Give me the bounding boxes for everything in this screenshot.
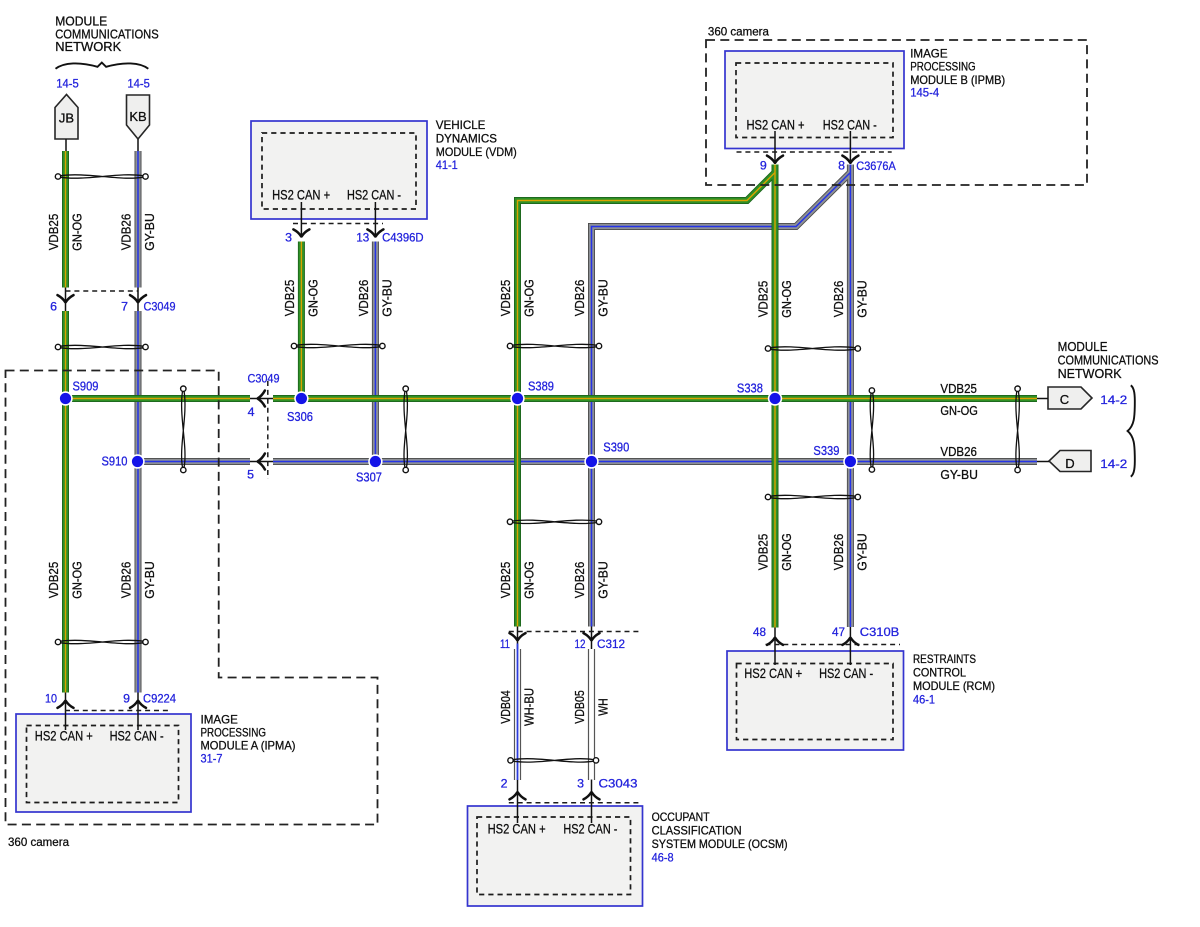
svg-text:VDB05: VDB05 — [573, 690, 587, 724]
label wire mid gray lower — [573, 561, 611, 599]
svg-text:VDB25: VDB25 — [757, 281, 771, 318]
pin stub IPMB pin9 — [774, 131, 776, 164]
svg-text:46-8: 46-8 — [652, 851, 674, 865]
twisted pair symbol bus x872 — [869, 388, 874, 472]
svg-text:RESTRAINTS: RESTRAINTS — [913, 653, 976, 666]
label wire colA upper — [47, 213, 85, 251]
svg-text:GN-OG: GN-OG — [780, 533, 794, 571]
dashed link connector C3049 pins 4-5 — [267, 381, 269, 479]
label HS2 CAN RCM — [744, 666, 873, 681]
module box IPMB — [725, 51, 904, 149]
svg-text:C3049: C3049 — [248, 372, 280, 386]
label network title left — [55, 13, 159, 54]
pin stub VDM pin13 — [374, 202, 376, 237]
svg-text:VDB04: VDB04 — [499, 690, 513, 724]
svg-text:GN-OG: GN-OG — [780, 280, 794, 318]
svg-text:S909: S909 — [73, 380, 99, 394]
svg-text:HS2 CAN +: HS2 CAN + — [35, 729, 93, 744]
svg-text:C3676A: C3676A — [856, 159, 896, 173]
pin stub IPMA pin9 — [137, 693, 139, 731]
label wire VDM gray — [357, 279, 395, 317]
svg-text:VDB26: VDB26 — [120, 214, 134, 251]
dashed link connector C3049 pins 6-7 — [66, 290, 139, 292]
svg-text:HS2 CAN +: HS2 CAN + — [488, 822, 546, 837]
svg-text:HS2 CAN -: HS2 CAN - — [819, 666, 873, 681]
label wire mid gray upper — [573, 279, 611, 317]
svg-text:GN-OG: GN-OG — [306, 279, 320, 317]
module box IPMA — [16, 714, 191, 812]
brace top left — [56, 63, 149, 69]
svg-text:VDB26: VDB26 — [832, 281, 846, 318]
label IPMB title — [910, 48, 1005, 100]
pin stub VDM pin3 — [300, 202, 302, 237]
wire VDB25 GN-OG column JB — [62, 151, 69, 693]
arrow C3049 pin7 — [130, 295, 146, 302]
twisted pair symbol right drop lower — [765, 494, 860, 499]
twisted pair symbol JB-KB upper — [55, 174, 148, 179]
svg-text:MODULE (RCM): MODULE (RCM) — [913, 680, 995, 693]
twisted pair symbol VDM drop — [291, 343, 385, 348]
svg-text:7: 7 — [121, 300, 128, 314]
svg-text:C3049: C3049 — [144, 300, 176, 314]
label HS2 CAN IPMB — [747, 118, 877, 133]
svg-text:GY-BU: GY-BU — [380, 279, 394, 317]
arrow IPMB pin8 — [842, 156, 858, 163]
svg-text:WH: WH — [597, 698, 611, 716]
arrow C3049 pin4 — [258, 391, 265, 407]
label network title right — [1058, 339, 1159, 381]
connector KB — [127, 95, 150, 139]
arrow RCM pin48 — [767, 638, 783, 645]
twisted pair symbol bus x183 — [181, 386, 186, 473]
svg-text:C9224: C9224 — [143, 692, 176, 706]
svg-text:C3043: C3043 — [599, 777, 638, 791]
label wire colB lower — [120, 561, 158, 599]
connector JB — [55, 95, 78, 140]
svg-text:47: 47 — [832, 625, 845, 639]
label wire colA lower — [47, 561, 85, 599]
arrow OCSM pin3 — [584, 792, 600, 799]
svg-text:HS2 CAN -: HS2 CAN - — [110, 729, 164, 744]
arrow IPMA pin10 — [58, 701, 74, 708]
svg-text:PROCESSING: PROCESSING — [910, 61, 976, 74]
svg-text:145-4: 145-4 — [910, 86, 939, 100]
wire VDB04 WH-BU thin — [515, 644, 521, 781]
svg-text:14-2: 14-2 — [1100, 457, 1127, 471]
label wire right gray lower — [832, 533, 870, 571]
svg-text:PROCESSING: PROCESSING — [201, 727, 267, 740]
svg-text:GY-BU: GY-BU — [855, 533, 869, 571]
label HS2 CAN OCSM — [488, 822, 618, 837]
label wire right green lower — [757, 533, 795, 571]
svg-text:HS2 CAN -: HS2 CAN - — [563, 822, 617, 837]
pin stub C3049 pin5 — [250, 461, 274, 463]
svg-text:VDB25: VDB25 — [940, 382, 977, 396]
arrow C312 pin12 — [584, 633, 600, 640]
pin stub C312 pin12 — [591, 627, 593, 650]
twisted pair symbol OCSM thin wires — [508, 758, 599, 763]
label wire VDB04 — [499, 688, 537, 726]
svg-text:CLASSIFICATION: CLASSIFICATION — [652, 825, 742, 838]
pin stub OCSM pin3 — [591, 780, 593, 824]
label OCSM title — [652, 811, 788, 865]
connector C — [1048, 387, 1092, 409]
svg-text:S307: S307 — [356, 471, 382, 485]
arrow C312 pin11 — [510, 633, 526, 640]
svg-text:VDB26: VDB26 — [940, 445, 977, 459]
pin stub C312 pin11 — [517, 627, 519, 650]
twisted pair symbol bus x1018 — [1015, 386, 1020, 473]
svg-text:VDB26: VDB26 — [120, 562, 134, 599]
svg-text:GN-OG: GN-OG — [71, 561, 85, 599]
dashed link connector C9224 — [65, 710, 168, 712]
svg-text:3: 3 — [285, 231, 292, 245]
brace right — [1128, 385, 1135, 476]
module box OCSM — [468, 806, 643, 906]
svg-text:11: 11 — [500, 637, 510, 651]
svg-text:GN-OG: GN-OG — [940, 404, 978, 418]
pin stub C3049 pin4 — [250, 398, 274, 400]
svg-text:360 camera: 360 camera — [708, 25, 769, 39]
wire VDB26 GY-BU column KB — [135, 151, 142, 693]
svg-text:S390: S390 — [603, 441, 629, 455]
svg-text:MODULE (VDM): MODULE (VDM) — [436, 146, 517, 159]
label HS2 CAN IPMA — [35, 729, 164, 744]
svg-text:IMAGE: IMAGE — [910, 48, 948, 61]
svg-text:HS2 CAN -: HS2 CAN - — [347, 188, 401, 203]
svg-text:VDB26: VDB26 — [357, 280, 371, 317]
svg-text:2: 2 — [501, 777, 508, 791]
svg-text:8: 8 — [838, 159, 845, 173]
svg-text:S389: S389 — [528, 380, 554, 394]
svg-text:GY-BU: GY-BU — [143, 561, 157, 599]
svg-text:JB: JB — [59, 111, 74, 126]
svg-text:HS2 CAN +: HS2 CAN + — [744, 666, 802, 681]
wire VDB26 GY-BU column VDM — [372, 242, 379, 462]
wire VDB26 GY-BU middle column and top run — [592, 165, 851, 628]
label wire colB upper — [120, 213, 158, 251]
svg-text:GN-OG: GN-OG — [523, 279, 537, 317]
svg-text:OCCUPANT: OCCUPANT — [652, 811, 710, 824]
svg-text:GY-BU: GY-BU — [855, 280, 869, 318]
wire VDB26 GY-BU bus — [138, 458, 1037, 465]
svg-text:HS2 CAN +: HS2 CAN + — [747, 118, 805, 133]
wire VDB25 GN-OG column VDM — [298, 242, 305, 399]
arrow C3049 pin6 — [58, 295, 74, 302]
svg-text:C: C — [1060, 392, 1069, 407]
svg-text:S306: S306 — [287, 410, 313, 424]
svg-text:HS2 CAN -: HS2 CAN - — [823, 118, 877, 133]
dashed link connector C310B — [766, 644, 901, 646]
dashed link connector C3676A — [737, 151, 892, 153]
pin stub IPMA pin10 — [65, 693, 67, 731]
svg-text:9: 9 — [760, 159, 767, 173]
svg-text:C310B: C310B — [860, 625, 900, 639]
stub wire to connector C — [1037, 398, 1048, 400]
pin stub RCM pin47 — [849, 627, 851, 665]
splice S338 — [768, 391, 782, 405]
connector D — [1049, 451, 1091, 472]
svg-text:S339: S339 — [813, 444, 839, 458]
svg-text:VDB26: VDB26 — [832, 534, 846, 571]
svg-text:9: 9 — [123, 692, 130, 706]
wire VDB25 GN-OG bus — [66, 395, 1038, 402]
svg-text:13: 13 — [356, 231, 369, 245]
splice S910 — [130, 454, 144, 468]
svg-text:GN-OG: GN-OG — [71, 213, 85, 251]
twisted pair symbol middle drop lower — [507, 519, 601, 524]
svg-text:360 camera: 360 camera — [8, 835, 69, 849]
svg-text:31-7: 31-7 — [201, 752, 223, 766]
pin stub JB — [65, 139, 67, 151]
svg-text:IMAGE: IMAGE — [201, 714, 239, 727]
pin stub KB — [137, 139, 139, 151]
svg-text:3: 3 — [577, 777, 584, 791]
label wire right gray upper — [832, 280, 870, 318]
svg-text:VDB25: VDB25 — [47, 562, 61, 599]
arrow IPMB pin9 — [767, 156, 783, 163]
svg-text:VDB26: VDB26 — [573, 562, 587, 599]
svg-text:VDB25: VDB25 — [283, 280, 297, 317]
svg-text:6: 6 — [50, 300, 57, 314]
wire VDB25 GN-OG middle column and top run — [518, 165, 776, 628]
module box RCM — [727, 651, 904, 750]
svg-text:14-5: 14-5 — [127, 77, 150, 91]
twisted pair symbol right drop upper — [765, 346, 860, 351]
pin stub OCSM pin2 — [517, 780, 519, 824]
splice S390 — [584, 454, 598, 468]
svg-text:GY-BU: GY-BU — [597, 561, 611, 599]
dashed link connector C312 — [509, 631, 641, 633]
splice S339 — [843, 454, 857, 468]
splice S306 — [294, 391, 308, 405]
svg-text:46-1: 46-1 — [913, 693, 935, 707]
dashed boundary 360 camera IPMA — [6, 371, 378, 825]
dashed boundary 360 camera IPMB — [706, 40, 1087, 185]
wire VDB05 WH thin — [589, 649, 595, 780]
pin stub C3049 pin6 — [65, 287, 67, 312]
svg-text:GN-OG: GN-OG — [523, 561, 537, 599]
arrow C3049 pin5 — [258, 454, 265, 470]
svg-text:D: D — [1065, 456, 1074, 471]
svg-text:C312: C312 — [597, 637, 625, 651]
svg-text:NETWORK: NETWORK — [55, 39, 121, 54]
svg-text:HS2 CAN +: HS2 CAN + — [272, 188, 330, 203]
svg-text:4: 4 — [248, 405, 255, 419]
label wire mid green lower — [499, 561, 537, 599]
pin stub RCM pin48 — [774, 627, 776, 665]
splice S307 — [368, 454, 382, 468]
svg-text:10: 10 — [45, 692, 57, 706]
pin stub C3049 pin7 — [137, 287, 139, 312]
svg-text:S338: S338 — [737, 382, 763, 396]
splice S389 — [510, 391, 524, 405]
svg-text:NETWORK: NETWORK — [1058, 366, 1122, 381]
twisted pair symbol JB-KB lower — [55, 344, 148, 349]
label RCM title — [913, 653, 995, 707]
stub wire to connector D — [1037, 461, 1049, 463]
svg-text:GY-BU: GY-BU — [597, 279, 611, 317]
label wire VDB05 — [573, 690, 611, 724]
splice S909 — [58, 391, 72, 405]
label IPMA title — [201, 714, 296, 766]
svg-text:C4396D: C4396D — [382, 231, 424, 245]
svg-text:SYSTEM MODULE (OCSM): SYSTEM MODULE (OCSM) — [652, 838, 788, 851]
label wire right green upper — [757, 280, 795, 318]
svg-text:VDB25: VDB25 — [757, 534, 771, 571]
svg-text:S910: S910 — [102, 455, 128, 469]
arrow VDM pin13 — [367, 229, 383, 236]
svg-text:41-1: 41-1 — [436, 158, 458, 172]
svg-text:VDB25: VDB25 — [499, 562, 513, 599]
arrow IPMA pin9 — [130, 701, 146, 708]
svg-text:VDB25: VDB25 — [47, 214, 61, 251]
svg-text:WH-BU: WH-BU — [523, 688, 537, 726]
label wire VDM green — [283, 279, 321, 317]
svg-text:DYNAMICS: DYNAMICS — [436, 132, 497, 145]
svg-text:GY-BU: GY-BU — [940, 468, 978, 482]
svg-text:14-5: 14-5 — [56, 77, 79, 91]
arrow RCM pin47 — [842, 638, 858, 645]
svg-text:VDB26: VDB26 — [573, 280, 587, 317]
twisted pair symbol middle drop upper — [507, 343, 601, 348]
dashed link connector C3043 — [509, 802, 639, 804]
svg-text:VEHICLE: VEHICLE — [436, 119, 486, 132]
svg-text:48: 48 — [753, 625, 766, 639]
twisted pair symbol bus x405 — [403, 386, 408, 473]
module box VDM — [251, 121, 427, 219]
twisted pair symbol IPMA drop — [55, 639, 148, 644]
arrow VDM pin3 — [293, 229, 309, 236]
label wire mid green upper — [499, 279, 537, 317]
dashed link connector C4396D — [293, 223, 383, 225]
arrow OCSM pin2 — [510, 792, 526, 799]
pin stub IPMB pin8 — [849, 131, 851, 164]
label HS2 CAN VDM — [272, 188, 401, 203]
svg-text:GY-BU: GY-BU — [143, 213, 157, 251]
svg-text:14-2: 14-2 — [1100, 393, 1127, 407]
svg-text:12: 12 — [575, 637, 586, 651]
svg-text:KB: KB — [129, 109, 146, 124]
label VDM title — [436, 119, 517, 172]
svg-text:CONTROL: CONTROL — [913, 667, 967, 680]
svg-text:5: 5 — [247, 468, 254, 482]
svg-text:VDB25: VDB25 — [499, 280, 513, 317]
